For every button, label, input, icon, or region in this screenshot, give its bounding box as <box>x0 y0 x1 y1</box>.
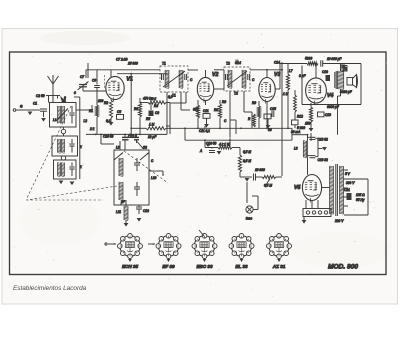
svg-text:25 000: 25 000 <box>127 62 138 66</box>
wire top bus <box>86 69 160 71</box>
socket AZ 31 <box>269 236 289 256</box>
svg-text:8000 pF: 8000 pF <box>340 90 353 94</box>
svg-text:EL 33: EL 33 <box>235 264 248 269</box>
capacitor C18 <box>326 75 331 81</box>
tuning gang dashed line <box>26 199 103 201</box>
osc cap2 <box>134 186 140 188</box>
wire AVC bus <box>86 133 167 135</box>
wire <box>266 102 268 129</box>
wire <box>74 96 80 98</box>
wire <box>251 112 253 128</box>
svg-text:50 k: 50 k <box>150 97 156 101</box>
wire plate bus <box>117 73 167 75</box>
wire <box>256 176 263 178</box>
svg-text:0,1: 0,1 <box>106 119 111 123</box>
svg-text:C18 32: C18 32 <box>318 138 329 142</box>
wire <box>219 100 221 104</box>
capacitor C13 <box>264 114 271 119</box>
label TR <box>342 66 347 71</box>
svg-text:150: 150 <box>305 122 311 126</box>
resistor R14 <box>307 62 318 65</box>
wire det chain <box>239 172 241 177</box>
capacitor C6 <box>149 111 154 117</box>
svg-text:S2: S2 <box>143 146 147 150</box>
svg-text:R9: R9 <box>252 101 256 105</box>
socket arrow <box>148 243 155 245</box>
switch S2 <box>137 142 144 150</box>
gang dashed diagonal <box>27 106 71 198</box>
wire <box>308 136 310 138</box>
svg-text:L10: L10 <box>151 176 157 180</box>
svg-text:T2: T2 <box>226 62 230 66</box>
coil box 3 <box>54 160 77 179</box>
svg-text:5 000: 5 000 <box>297 126 305 130</box>
svg-text:C5: C5 <box>117 110 121 114</box>
socket EL 33 <box>231 236 251 256</box>
wire <box>96 117 98 134</box>
wire plate V2 <box>214 88 224 90</box>
capacitor C-det <box>209 150 215 152</box>
svg-text:R12: R12 <box>297 115 303 119</box>
coil L4 <box>61 139 63 153</box>
wire <box>230 119 236 121</box>
V1 shield dashes <box>104 75 106 89</box>
wire <box>307 157 309 175</box>
wire <box>315 64 317 78</box>
tube V2 <box>197 77 213 100</box>
ground <box>41 118 46 122</box>
T2 cap <box>247 74 249 80</box>
resistor R1 <box>95 105 98 117</box>
wire <box>110 118 112 122</box>
T1 primary coil <box>164 70 166 88</box>
svg-text:C9: C9 <box>92 79 96 83</box>
svg-text:1 M: 1 M <box>283 92 289 96</box>
wire <box>267 119 269 125</box>
svg-text:A: A <box>199 149 202 153</box>
wire <box>79 100 81 179</box>
tube V5 rectifier <box>302 175 321 201</box>
scan shading blotches <box>20 31 390 268</box>
wire <box>140 102 148 104</box>
wire <box>150 103 152 110</box>
svg-text:C6: C6 <box>155 111 159 115</box>
capacitor C12 <box>134 136 139 138</box>
svg-text:125 Ω: 125 Ω <box>356 193 365 197</box>
resistor R4 <box>148 101 166 104</box>
wire top bus <box>188 69 198 71</box>
capacitor C17 <box>253 174 255 181</box>
svg-text:C11: C11 <box>203 109 209 113</box>
T1 tuning arrow <box>163 71 185 87</box>
wire <box>52 97 54 103</box>
svg-text:C13: C13 <box>143 209 149 213</box>
svg-text:L9: L9 <box>116 146 120 150</box>
ground <box>124 223 129 227</box>
svg-text:C11 0,1: C11 0,1 <box>199 129 210 133</box>
wire <box>294 125 296 128</box>
svg-text:L8: L8 <box>294 147 298 151</box>
svg-text:30 mA: 30 mA <box>291 130 300 134</box>
wire <box>100 134 102 144</box>
wire <box>205 101 207 105</box>
osc switch arrow <box>140 153 149 161</box>
ground <box>109 122 114 126</box>
power transformer primary <box>329 166 331 214</box>
gang dashed diagonal <box>124 151 168 183</box>
svg-text:R8: R8 <box>214 108 218 112</box>
svg-text:ECH 35: ECH 35 <box>122 264 139 269</box>
svg-text:10 000: 10 000 <box>255 168 265 172</box>
svg-text:C18: C18 <box>322 70 328 74</box>
svg-text:C19 32: C19 32 <box>318 158 329 162</box>
wire <box>301 66 303 105</box>
T2 primary coil <box>227 70 229 88</box>
output stage box <box>360 64 362 105</box>
svg-text:T1: T1 <box>172 94 176 98</box>
T1 cap <box>184 74 186 80</box>
socket arrow <box>105 243 107 245</box>
wire <box>110 70 112 78</box>
svg-text:T2: T2 <box>234 92 238 96</box>
resistor R8 <box>218 104 221 118</box>
wire <box>166 92 168 134</box>
svg-text:V4: V4 <box>327 93 333 99</box>
ground <box>302 220 307 224</box>
svg-text:55 Hy: 55 Hy <box>356 198 365 202</box>
ground <box>70 182 75 186</box>
svg-text:R5: R5 <box>146 117 150 121</box>
svg-text:L1: L1 <box>53 118 57 122</box>
resistor R10 <box>253 114 256 127</box>
coil L1 <box>57 106 59 124</box>
wire <box>323 63 361 65</box>
resistor R16 <box>218 146 232 149</box>
svg-text:50: 50 <box>268 128 272 132</box>
capacitor C10 <box>122 136 129 138</box>
wire <box>204 126 206 128</box>
wire <box>124 134 126 137</box>
wire <box>276 176 282 178</box>
wire top bus <box>214 69 224 71</box>
speaker <box>347 78 353 86</box>
wire <box>206 119 208 125</box>
capacitor C19 <box>318 112 325 117</box>
svg-text:220 V: 220 V <box>334 219 344 223</box>
filament lamps <box>303 209 331 217</box>
switch contact <box>61 156 65 160</box>
svg-text:MOD. 800: MOD. 800 <box>328 264 358 271</box>
svg-text:0,5 M: 0,5 M <box>264 184 272 188</box>
filter choke L8 <box>302 141 304 158</box>
wire <box>266 70 268 78</box>
svg-text:300 V: 300 V <box>346 181 355 185</box>
wire <box>130 98 132 134</box>
svg-text:R2: R2 <box>104 101 108 105</box>
svg-text:C15: C15 <box>270 107 276 111</box>
trimmer arrow <box>56 109 68 122</box>
svg-text:C1: C1 <box>33 102 37 106</box>
ground <box>204 124 209 128</box>
coil L3 <box>57 139 59 153</box>
wire <box>340 64 342 72</box>
wave-band switch S1 <box>46 95 60 97</box>
capacitor C16 <box>292 120 299 125</box>
ground <box>266 125 271 129</box>
svg-text:C14: C14 <box>274 61 280 65</box>
capacitor C4b <box>71 163 73 167</box>
resistor R13 <box>309 107 312 122</box>
svg-text:EF 89: EF 89 <box>162 264 175 269</box>
wire plate V3 <box>275 88 280 90</box>
capacitor C4a <box>71 139 73 143</box>
svg-text:C16 50: C16 50 <box>206 142 217 146</box>
svg-text:5000: 5000 <box>305 57 312 61</box>
svg-text:L11: L11 <box>116 210 121 214</box>
resistor R12 <box>294 95 297 112</box>
svg-text:22 pF: 22 pF <box>147 135 157 139</box>
capacitor C21 <box>347 193 352 200</box>
wire <box>258 101 260 106</box>
socket EBC 33 <box>194 236 214 256</box>
PT core <box>335 164 337 216</box>
osc coil L10 <box>118 182 120 200</box>
wire <box>76 109 92 111</box>
ground <box>28 112 33 116</box>
coil L5 <box>57 163 59 177</box>
wire <box>291 128 293 140</box>
wire <box>305 200 307 209</box>
wire <box>139 98 141 103</box>
svg-text:R8: R8 <box>222 100 226 104</box>
socket ECH 35 <box>120 236 140 256</box>
wire B+ bus <box>185 139 292 141</box>
resistor R11 <box>286 74 289 90</box>
svg-text:fono: fono <box>246 217 252 221</box>
svg-text:TR: TR <box>341 65 346 69</box>
svg-text:V3: V3 <box>274 72 280 78</box>
wire mid bus <box>166 127 292 129</box>
svg-text:0,5 M: 0,5 M <box>243 159 251 163</box>
PT taps <box>344 169 349 171</box>
wire plate V1 <box>130 74 132 98</box>
svg-text:4 k 1 W: 4 k 1 W <box>219 142 231 146</box>
ground <box>137 218 142 222</box>
schematic border frame <box>10 52 387 275</box>
output transformer <box>336 71 338 89</box>
svg-text:0: 0 <box>64 96 66 100</box>
tube V1 <box>106 76 124 99</box>
capacitor C13b <box>136 206 142 208</box>
antenna coil box 1 <box>50 103 77 128</box>
wire <box>82 87 84 91</box>
osc cap <box>134 162 140 164</box>
resistor R15 <box>238 155 241 172</box>
wire <box>204 140 206 147</box>
switch contact <box>61 129 65 133</box>
coil box 2 <box>52 136 78 156</box>
osc coil L9 <box>118 158 120 176</box>
IF transformer T1 box <box>160 66 188 92</box>
svg-text:R1: R1 <box>89 109 93 113</box>
coil L6 <box>61 163 63 177</box>
capacitor C15 <box>271 111 273 117</box>
wire <box>166 102 170 104</box>
ground <box>59 181 64 185</box>
capacitor C22 <box>320 60 322 66</box>
svg-text:C7 2-20: C7 2-20 <box>116 58 128 62</box>
tuning gang dashed line <box>27 186 117 200</box>
svg-text:C7: C7 <box>80 75 84 79</box>
T2 cap <box>225 74 227 80</box>
svg-text:L2: L2 <box>84 119 88 123</box>
tube V4 <box>306 78 327 103</box>
svg-text:C21: C21 <box>344 188 350 192</box>
T2 tuning arrow <box>227 71 247 86</box>
wire <box>166 125 170 127</box>
svg-text:300: 300 <box>193 108 199 112</box>
svg-text:6000 pF: 6000 pF <box>327 105 340 109</box>
wire <box>87 63 89 78</box>
svg-text:2 k: 2 k <box>89 127 95 131</box>
coil L11 <box>123 206 125 220</box>
resistor R6 <box>146 127 166 130</box>
wire <box>310 122 312 128</box>
wire osc out <box>149 170 163 172</box>
svg-text:10 000 pF: 10 000 pF <box>327 57 342 61</box>
wire top bus <box>250 69 282 71</box>
ground <box>245 178 250 182</box>
T1 cap <box>161 74 163 80</box>
wire <box>322 187 330 189</box>
capacitor C11 <box>203 114 210 119</box>
wire <box>197 100 199 105</box>
svg-text:1 M: 1 M <box>149 123 155 127</box>
resistor R9 <box>257 106 260 118</box>
scan speckle <box>13 32 392 297</box>
power transformer secondary <box>339 166 341 214</box>
wire <box>243 91 245 112</box>
svg-text:6,8: 6,8 <box>168 95 173 99</box>
wire <box>229 91 231 148</box>
resistor R2 <box>109 100 112 118</box>
svg-text:V5: V5 <box>294 185 300 191</box>
svg-text:470 k: 470 k <box>143 97 151 101</box>
wire <box>184 128 186 140</box>
svg-text:C2 50: C2 50 <box>36 94 45 98</box>
svg-text:R4: R4 <box>154 104 158 108</box>
resistor R3 <box>138 103 141 117</box>
svg-text:C19: C19 <box>325 113 331 117</box>
svg-text:V1: V1 <box>126 77 132 83</box>
wire <box>185 92 187 103</box>
osc switch arrow <box>114 153 123 161</box>
ground <box>309 128 314 132</box>
wire <box>205 70 207 77</box>
resistor R7 <box>196 105 199 118</box>
wire <box>292 134 308 136</box>
svg-text:Establecimientos Lacorda: Establecimientos Lacorda <box>13 285 87 292</box>
oscillator box <box>114 150 149 205</box>
capacitor C3 <box>71 106 73 112</box>
svg-text:C10 50: C10 50 <box>103 135 114 139</box>
svg-text:C12 1: C12 1 <box>128 135 137 139</box>
antenna <box>48 75 54 84</box>
socket EF 89 <box>158 236 178 256</box>
svg-text:0: 0 <box>74 91 76 95</box>
svg-text:100: 100 <box>98 99 104 103</box>
socket arrow <box>199 230 204 236</box>
tube V3 <box>259 78 275 102</box>
wire <box>303 217 305 221</box>
svg-text:0,5 M: 0,5 M <box>243 150 251 154</box>
ground <box>318 148 323 150</box>
coil L2 <box>61 106 63 124</box>
capacitor C18b <box>309 136 315 138</box>
wire <box>367 179 369 215</box>
svg-text:T1: T1 <box>162 62 166 66</box>
capacitor C19b <box>309 155 315 157</box>
wire <box>119 141 121 150</box>
svg-text:L7: L7 <box>289 69 293 73</box>
wire <box>125 200 127 206</box>
svg-text:EBC 33: EBC 33 <box>196 264 213 269</box>
wire <box>180 92 182 110</box>
wire <box>125 220 127 223</box>
wire <box>307 135 309 141</box>
volume potentiometer <box>262 176 276 179</box>
svg-text:V2: V2 <box>212 72 218 78</box>
svg-text:R3: R3 <box>134 107 138 111</box>
T1 secondary coil <box>178 70 180 88</box>
svg-text:8 µF: 8 µF <box>299 74 306 78</box>
input terminal <box>13 109 16 112</box>
IF transformer T2 box <box>224 67 250 91</box>
lamp fono <box>246 182 248 196</box>
ground <box>217 151 222 155</box>
wire <box>281 62 283 176</box>
T2 secondary coil <box>241 70 243 88</box>
svg-text:AZ 31: AZ 31 <box>272 264 286 269</box>
wire top right <box>280 63 307 65</box>
